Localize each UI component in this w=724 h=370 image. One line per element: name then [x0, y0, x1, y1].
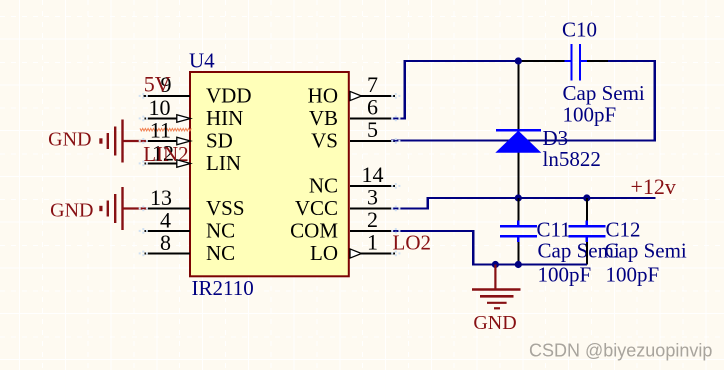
svg-text:3: 3 [367, 185, 378, 210]
svg-text:CSDN @biyezuopinvip: CSDN @biyezuopinvip [529, 341, 712, 361]
svg-text:14: 14 [362, 162, 384, 187]
svg-text:100pF: 100pF [563, 103, 617, 127]
wire COM net: pin 2 down to bottom rail [391, 231, 587, 266]
pin 8 NC wire [145, 253, 191, 255]
svg-text:HO: HO [308, 84, 338, 108]
svg-text:C10: C10 [562, 18, 597, 42]
svg-text:1: 1 [367, 230, 378, 255]
power port GND 1 (to SD pin) [101, 120, 146, 163]
no-ERC marker zigzag on pin 11 [140, 128, 191, 131]
svg-text:5: 5 [367, 117, 378, 142]
svg-text:GND: GND [473, 312, 516, 334]
pin 10 input arrow [177, 115, 191, 123]
pin 9 VDD wire [144, 95, 191, 97]
wire VB net: pin 6 to top rail [391, 60, 518, 120]
junction node at VB/top rail and diode [515, 57, 522, 64]
pin 10 HIN wire [145, 118, 191, 120]
svg-text:100pF: 100pF [606, 263, 660, 287]
svg-text:VCC: VCC [295, 196, 338, 220]
ground symbol (earth) at bottom rail [472, 265, 521, 309]
svg-text:GND: GND [50, 199, 93, 221]
pin 12 input arrow [177, 160, 191, 168]
capacitor C11 legs [517, 198, 519, 265]
svg-text:Cap Semi: Cap Semi [605, 239, 687, 263]
svg-text:LO: LO [310, 241, 338, 265]
svg-text:5V: 5V [144, 72, 171, 97]
svg-text:2: 2 [367, 207, 378, 232]
capacitor C12 [569, 221, 606, 243]
svg-text:VSS: VSS [206, 196, 245, 220]
svg-text:4: 4 [160, 208, 171, 233]
pin 5 VS wire [350, 140, 395, 142]
junction node bottom rail / C11 leg [515, 261, 522, 268]
wire VS net: pin 5 to right vertical [391, 139, 656, 141]
wire VCC net: pin 3 to +12v rail [391, 197, 656, 210]
svg-text:VDD: VDD [206, 84, 252, 108]
pin 4 NC wire [145, 230, 191, 232]
capacitor C11 [500, 221, 537, 243]
svg-text:U4: U4 [189, 49, 215, 73]
junction node rail/C12 leg [583, 194, 590, 201]
IC U4 (IR2110 gate driver) [189, 49, 349, 301]
power port GND 2 (to VSS pin) [101, 187, 147, 230]
pin 13 VSS wire [146, 208, 190, 210]
capacitor C10 [565, 44, 588, 81]
svg-text:HIN: HIN [206, 106, 243, 130]
pin 6 VB wire [350, 118, 395, 120]
pin 1 LO wire [350, 253, 395, 255]
svg-text:8: 8 [160, 230, 171, 255]
svg-text:COM: COM [290, 219, 338, 243]
pin 2 COM wire [350, 230, 395, 232]
svg-text:NC: NC [309, 174, 338, 198]
svg-text:LIN: LIN [206, 151, 241, 175]
pin 14 NC wire [350, 185, 395, 187]
svg-text:GND: GND [48, 128, 91, 150]
pin 12 LIN wire [145, 163, 191, 165]
pin 11 SD wire [145, 140, 190, 142]
svg-text:13: 13 [150, 185, 172, 210]
svg-text:NC: NC [206, 219, 235, 243]
svg-text:IR2110: IR2110 [192, 276, 254, 300]
pin 7 output arrow [350, 91, 362, 100]
svg-text:ln5822: ln5822 [543, 147, 601, 171]
diode D3 (1n5822) [495, 130, 541, 152]
junction node bottom rail / GND stem [492, 261, 499, 268]
svg-text:NC: NC [206, 241, 235, 265]
diode D3 legs [517, 61, 519, 198]
wire top rail through C10 (black lead stubs) [518, 60, 608, 62]
svg-text:11: 11 [150, 118, 171, 143]
pin 11 input arrow [177, 137, 191, 145]
svg-text:10: 10 [149, 95, 171, 120]
svg-text:100pF: 100pF [538, 263, 592, 287]
pin 1 output arrow [350, 249, 362, 258]
svg-text:6: 6 [367, 95, 378, 120]
svg-text:VS: VS [311, 129, 338, 153]
svg-text:7: 7 [367, 72, 378, 97]
pin 3 VCC wire [350, 208, 395, 210]
wire top rail right segment and right vertical [608, 60, 656, 142]
capacitor C12 legs [586, 198, 588, 265]
svg-text:VB: VB [309, 106, 338, 130]
svg-text:Cap Semi: Cap Semi [563, 81, 645, 105]
pin endpoint markers [139, 93, 401, 256]
junction node rail/diode leg [515, 194, 522, 201]
svg-text:LO2: LO2 [393, 231, 432, 255]
svg-text:+12v: +12v [631, 174, 676, 199]
pin 7 HO wire [350, 95, 395, 97]
svg-text:SD: SD [206, 129, 233, 153]
